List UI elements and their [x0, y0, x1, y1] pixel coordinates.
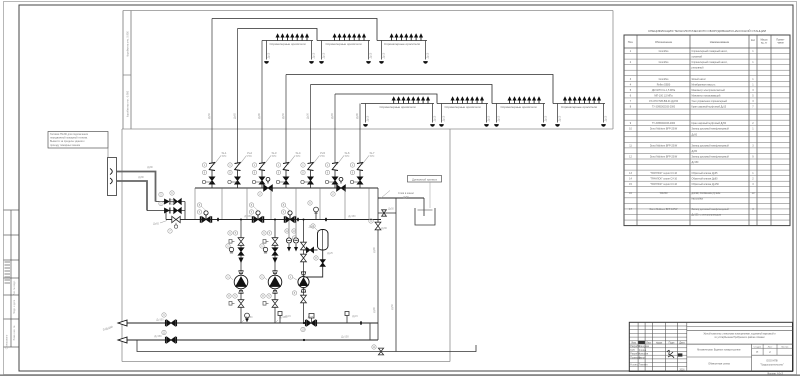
svg-text:резервный: резервный	[692, 67, 705, 70]
svg-text:Grundfos: Grundfos	[659, 78, 670, 81]
svg-text:ДМ 02Т0 Сх-1,5 МПа: ДМ 02Т0 Сх-1,5 МПа	[652, 89, 676, 92]
svg-text:Спринклерный пожарный насос,: Спринклерный пожарный насос,	[692, 61, 728, 64]
svg-text:ТУ-3095002033-2000: ТУ-3095002033-2000	[652, 106, 676, 109]
svg-text:Ду15: Ду15	[323, 52, 326, 58]
svg-text:"ГРАНЛОК" серия СV-16: "ГРАНЛОК" серия СV-16	[650, 183, 678, 186]
svg-text:Dorot Multisen ВFР-10ГW: Dorot Multisen ВFР-10ГW	[650, 208, 678, 211]
svg-text:Кран шаровый муфтовый Ду15: Кран шаровый муфтовый Ду15	[692, 106, 727, 109]
svg-text:Листов: Листов	[781, 347, 789, 349]
svg-text:Ду15: Ду15	[285, 315, 291, 318]
svg-text:Спринклерные оросители: Спринклерные оросители	[444, 105, 480, 109]
svg-text:Согласовано: Согласовано	[6, 334, 9, 349]
svg-text:Копырин: Копырин	[639, 354, 649, 356]
svg-text:Спринклерные оросители: Спринклерные оросители	[384, 42, 420, 46]
svg-text:Вялов: Вялов	[639, 357, 646, 359]
svg-text:Ду80: Ду80	[355, 112, 359, 119]
svg-text:2016: 2016	[679, 369, 685, 371]
svg-text:Ду15: Ду15	[545, 115, 548, 121]
svg-text:"ГРАНЛОК" серия СV-16: "ГРАНЛОК" серия СV-16	[650, 178, 678, 181]
svg-text:Кран шаровый муфтовый Ду50: Кран шаровый муфтовый Ду50	[692, 122, 727, 125]
svg-text:Спринклерные оросители: Спринклерные оросители	[500, 105, 536, 109]
svg-text:Ду15: Ду15	[488, 115, 491, 121]
svg-text:Типикин: Типикин	[639, 365, 648, 367]
svg-text:Жокей насос: Жокей насос	[692, 78, 707, 81]
svg-text:Обратный клапан Ду150: Обратный клапан Ду150	[692, 183, 720, 186]
svg-text:Обвязочная схема: Обвязочная схема	[708, 363, 730, 366]
svg-text:ООО НПФ: ООО НПФ	[766, 360, 778, 363]
svg-text:Кол: Кол	[751, 39, 756, 42]
svg-text:Взам. инв. №: Взам. инв. №	[13, 325, 16, 340]
svg-text:Дата: Дата	[679, 341, 685, 344]
svg-text:Ду15: Ду15	[443, 115, 446, 121]
svg-text:Изм: Изм	[631, 341, 636, 344]
svg-text:Ду80: Ду80	[373, 247, 376, 253]
svg-text:Ду65: Ду65	[233, 112, 237, 119]
svg-text:Вывести за пределы здания к: Вывести за пределы здания к	[50, 140, 85, 143]
svg-text:по ул.Карбышева Прибрежного ра: по ул.Карбышева Прибрежного района г.Каз…	[714, 336, 765, 339]
svg-text:УУС: УУС	[296, 155, 301, 158]
svg-text:Ду65: Ду65	[330, 112, 334, 119]
svg-text:Затвор дисковый межфланцевый: Затвор дисковый межфланцевый	[692, 144, 730, 147]
svg-text:Обратный клапан Ду80: Обратный клапан Ду80	[692, 178, 719, 181]
svg-text:МП-100 1,5 МПа: МП-100 1,5 МПа	[654, 94, 673, 97]
svg-text:ГАП: ГАП	[630, 349, 635, 352]
svg-text:Жилой комплекс с нежилыми поме: Жилой комплекс с нежилыми помещениями, п…	[703, 333, 776, 336]
svg-text:Ду15: Ду15	[605, 115, 608, 121]
svg-text:Ду15: Ду15	[498, 115, 501, 121]
svg-text:Обозначение: Обозначение	[655, 40, 673, 44]
svg-text:УУС: УУС	[320, 155, 325, 158]
svg-text:УЗ-СПО/Т2В-ВФ-01 Ду150: УЗ-СПО/Т2В-ВФ-01 Ду150	[649, 100, 679, 103]
svg-text:Ду15: Ду15	[313, 52, 316, 58]
svg-text:Долив; положение ручное: Долив; положение ручное	[692, 192, 722, 195]
svg-text:Ду50: Ду50	[391, 304, 394, 310]
svg-text:Ду150: Ду150	[341, 335, 349, 339]
svg-text:Затвор дисковый межфланцевый: Затвор дисковый межфланцевый	[692, 128, 730, 131]
svg-text:Dorot Multisen ВFР-2S/W: Dorot Multisen ВFР-2S/W	[650, 144, 678, 147]
svg-text:Ду150: Ду150	[692, 161, 700, 164]
svg-text:"ГРАНЛОК" серия СV-16: "ГРАНЛОК" серия СV-16	[650, 172, 678, 175]
svg-text:Ду15: Ду15	[427, 52, 430, 58]
svg-text:Ду65: Ду65	[153, 223, 159, 226]
svg-text:Ду150: Ду150	[244, 215, 252, 218]
svg-text:Коробки на отм. -0.950: Коробки на отм. -0.950	[127, 90, 130, 117]
svg-text:Ду50: Ду50	[403, 196, 409, 199]
svg-text:Ду15: Ду15	[367, 115, 370, 121]
svg-text:Ду15: Ду15	[268, 52, 271, 58]
svg-text:настройка: настройка	[692, 198, 704, 201]
svg-text:УУС: УУС	[247, 155, 252, 158]
svg-text:Затвор дисковый межфланцевый: Затвор дисковый межфланцевый	[692, 208, 730, 211]
svg-text:Ду15: Ду15	[352, 315, 358, 318]
svg-text:Ду50: Ду50	[388, 208, 394, 211]
svg-text:Ду15: Ду15	[434, 115, 437, 121]
svg-text:Grundfos: Grundfos	[659, 50, 670, 53]
svg-text:Манометр показывающий: Манометр показывающий	[692, 94, 721, 97]
svg-text:П: П	[756, 350, 758, 354]
svg-text:проезду пожарных машин: проезду пожарных машин	[50, 144, 81, 147]
svg-text:Наименование: Наименование	[710, 40, 730, 44]
svg-text:УУС: УУС	[370, 155, 375, 158]
svg-text:"Shurflo": "Shurflo"	[659, 192, 668, 195]
svg-text:Ду80: Ду80	[373, 307, 376, 313]
svg-text:Спринклерные оросители: Спринклерные оросители	[269, 42, 305, 46]
svg-text:Масса: Масса	[761, 40, 769, 42]
svg-text:передвижной пожарной техники.: передвижной пожарной техники.	[50, 137, 88, 140]
svg-text:основной: основной	[692, 56, 703, 59]
svg-text:ТУ-3095002033-2000: ТУ-3095002033-2000	[652, 122, 676, 125]
svg-text:"Градостроительство": "Градостроительство"	[760, 364, 784, 366]
svg-text:Поз.: Поз.	[628, 40, 634, 44]
svg-text:Ду15: Ду15	[370, 52, 373, 58]
svg-text:Узел управления спринклерный: Узел управления спринклерный	[692, 100, 728, 103]
svg-text:Ду80: Ду80	[692, 150, 698, 153]
svg-text:Ду15: Ду15	[559, 115, 562, 121]
svg-text:чание: чание	[777, 42, 784, 45]
svg-text:Затвор дисковый межфланцевый: Затвор дисковый межфланцевый	[692, 155, 730, 158]
svg-text:Ду50: Ду50	[281, 112, 285, 119]
svg-text:Формат А1х3: Формат А1х3	[767, 372, 783, 376]
svg-text:Спринклерные оросители: Спринклерные оросители	[379, 105, 415, 109]
svg-text:Шишуева: Шишуева	[639, 346, 650, 348]
svg-text:Ду150: Ду150	[156, 318, 164, 321]
svg-text:Подп: Подп	[669, 341, 675, 344]
svg-text:Dorot Multisen ВFР-2S/W: Dorot Multisen ВFР-2S/W	[650, 155, 678, 158]
svg-text:Ду80: Ду80	[257, 112, 261, 119]
svg-text:Ду25: Ду25	[327, 252, 333, 255]
svg-text:Ду80: Ду80	[381, 227, 387, 230]
svg-text:Ду80: Ду80	[138, 176, 144, 179]
svg-text:Мембранная емкость: Мембранная емкость	[692, 83, 717, 86]
svg-text:Dorot Multisen ВFР-2S/W: Dorot Multisen ВFР-2S/W	[650, 128, 678, 131]
svg-text:Манометр электроконтактный: Манометр электроконтактный	[692, 89, 726, 92]
svg-text:Дренажный приямок: Дренажный приямок	[412, 177, 438, 181]
svg-text:Ду80: Ду80	[147, 166, 153, 169]
svg-text:Лист: Лист	[768, 347, 773, 349]
svg-text:Инв. № подл.: Инв. № подл.	[13, 280, 16, 295]
svg-text:Механическая. Водяное пожароту: Механическая. Водяное пожаротушение	[697, 349, 741, 351]
svg-text:ед., кг: ед., кг	[761, 43, 767, 45]
svg-text:Спринклерные оросители: Спринклерные оросители	[561, 105, 597, 109]
svg-text:Ду150: Ду150	[348, 215, 356, 218]
svg-text:Ду150: Ду150	[154, 335, 162, 338]
svg-text:СПЕЦИФИКАЦИЯ ТЕХНОЛОГИЧЕСКОГО: СПЕЦИФИКАЦИЯ ТЕХНОЛОГИЧЕСКОГО ОБОРУДОВАН…	[648, 29, 766, 33]
svg-text:УУС: УУС	[345, 155, 350, 158]
svg-text:Ду50: Ду50	[207, 112, 211, 119]
svg-text:Ду65: Ду65	[308, 316, 314, 319]
svg-text:Коробки на отм. 5.950: Коробки на отм. 5.950	[127, 31, 130, 57]
svg-text:Головки ГМ-80 для подключения: Головки ГМ-80 для подключения	[50, 133, 89, 136]
svg-text:Спринклерные оросители: Спринклерные оросители	[325, 42, 361, 46]
svg-text:Ду50: Ду50	[306, 112, 310, 119]
svg-text:Grundfos: Grundfos	[659, 61, 670, 64]
svg-text:Ду50: Ду50	[692, 133, 698, 136]
svg-text:Подп. и дата: Подп. и дата	[13, 299, 16, 314]
svg-text:УУС: УУС	[222, 155, 227, 158]
svg-text:Ду150, с электроприводом: Ду150, с электроприводом	[692, 214, 722, 217]
svg-text:№док: №док	[656, 341, 663, 344]
svg-text:Reflex DE80: Reflex DE80	[657, 83, 671, 86]
svg-text:Клгина: Клгина	[639, 350, 647, 352]
svg-text:Слив в канал: Слив в канал	[398, 191, 415, 195]
svg-text:УУС: УУС	[272, 155, 277, 158]
svg-text:Лист: Лист	[646, 341, 652, 344]
svg-text:Ду15: Ду15	[383, 52, 386, 58]
svg-text:Стадия: Стадия	[754, 347, 762, 349]
svg-text:Спринклерный пожарный насос,: Спринклерный пожарный насос,	[692, 50, 728, 53]
svg-text:Обратный клапан Ду65: Обратный клапан Ду65	[692, 172, 719, 175]
